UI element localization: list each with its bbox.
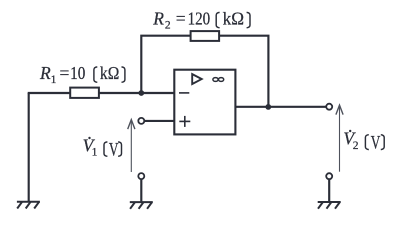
svg-text:10: 10 — [70, 63, 85, 83]
svg-text:=: = — [60, 63, 70, 83]
svg-text:R: R — [39, 63, 51, 83]
svg-text:kΩ: kΩ — [223, 9, 244, 29]
svg-text:1: 1 — [92, 147, 98, 159]
resistor R2 — [191, 31, 220, 41]
wire left vertical from R1 wire down to left ground — [28, 93, 30, 201]
op-amp U1 box — [174, 70, 235, 135]
label R1 = 10 [kOhm] — [39, 63, 125, 86]
ground left — [17, 202, 40, 209]
ground middle — [130, 202, 153, 209]
op-amp triangle symbol — [192, 74, 202, 84]
wire R1 input horizontal to op-amp minus input — [28, 92, 175, 94]
wire V1 lower terminal to middle ground — [140, 180, 142, 202]
svg-text:2: 2 — [353, 140, 359, 152]
svg-text:V: V — [371, 133, 381, 153]
svg-text:R: R — [152, 9, 164, 29]
op-amp infinity symbol — [213, 78, 224, 82]
svg-text:V: V — [109, 141, 119, 161]
ground right — [318, 202, 341, 209]
svg-text:=: = — [176, 9, 186, 29]
label R2 = 120 [kOhm] — [152, 9, 250, 32]
terminal circle V1 upper — [138, 118, 144, 124]
wire op-amp output to V2 terminal — [235, 106, 325, 108]
label V1 [V] input voltage — [83, 135, 122, 160]
op-amp plus input sign — [179, 116, 190, 127]
terminal circle V1 lower — [138, 173, 144, 179]
terminal circle V2 output — [326, 104, 332, 110]
svg-text:1: 1 — [51, 74, 57, 86]
wire V2 lower terminal to right ground — [328, 180, 330, 202]
node junction dot at inverting input — [138, 90, 144, 96]
arrow V1 (voltage direction) — [128, 120, 135, 172]
arrow V2 (voltage direction) — [336, 105, 343, 172]
resistor R1 — [70, 88, 99, 98]
wire plus input from V1 terminal to op-amp — [145, 120, 174, 122]
svg-text:2: 2 — [165, 20, 171, 32]
wire feedback up-over-down — [141, 36, 268, 107]
svg-text:120: 120 — [188, 9, 211, 29]
terminal circle V2 lower — [326, 173, 332, 179]
svg-text:kΩ: kΩ — [100, 63, 119, 83]
label V2 [V] output voltage — [343, 129, 384, 154]
op-amp minus input sign — [179, 92, 189, 94]
node junction dot at output — [265, 104, 271, 110]
